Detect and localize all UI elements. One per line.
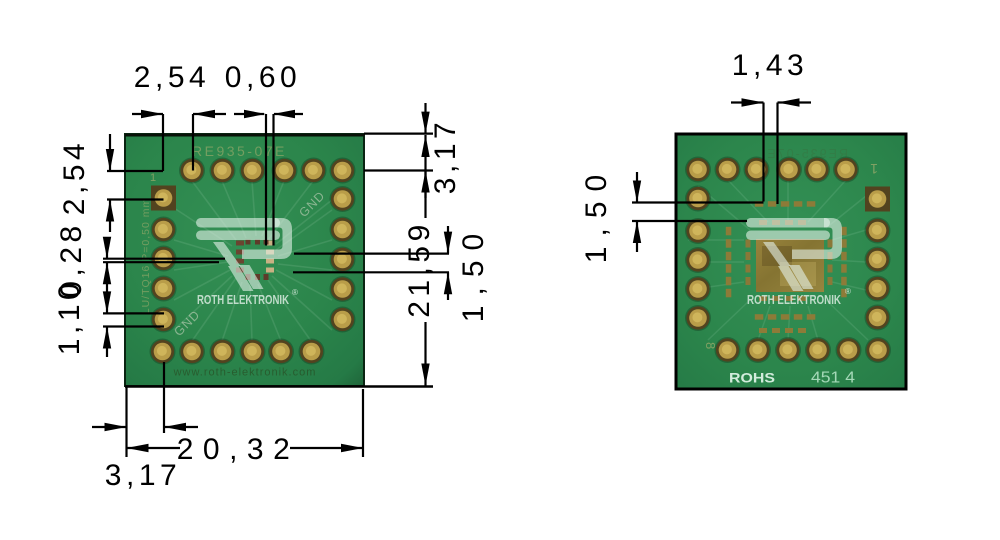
copper traces (left board): [174, 181, 342, 341]
svg-text:3,17: 3,17: [429, 118, 462, 194]
svg-text:1,10: 1,10: [53, 279, 86, 355]
svg-text:0,60: 0,60: [225, 61, 301, 94]
SMD footprint pads (left board center): [236, 240, 274, 281]
svg-text:LU/TQ16 P=0,50 mm: LU/TQ16 P=0,50 mm: [140, 198, 152, 315]
PCB board back (right): [676, 134, 906, 389]
silkscreen label RE935-07E: [192, 143, 287, 159]
silkscreen ROHS (right board): [729, 370, 775, 386]
through-hole pad column right (left board): [330, 186, 356, 333]
dim 2,54 top: arrows and extension lines: [132, 110, 226, 171]
through-hole pad row top (left board): [179, 158, 356, 184]
svg-text:1,50: 1,50: [580, 165, 613, 263]
through-hole pad row top (right board): [685, 157, 859, 183]
dim 20,32: line and arrows: [127, 444, 364, 452]
dim text 2,54 (left, rotated): [58, 139, 91, 215]
svg-text:ROTH ELEKTRONIK: ROTH ELEKTRONIK: [747, 292, 841, 307]
dim 1,43: arrows and lines: [731, 98, 811, 204]
dim text 21,59 (rotated): [403, 220, 436, 318]
GND label bottom-left (left board): [171, 307, 203, 339]
square pin-1 pad (left board): [151, 186, 176, 211]
dim text 1,10 (left, rotated): [53, 279, 86, 355]
dim text 0,28 (left, rotated): [55, 221, 88, 297]
GND label top-right (left board): [296, 188, 328, 220]
PCB board front (left): [125, 134, 364, 386]
dim 1,50 left of right board: lines and arrows: [632, 172, 764, 252]
svg-text:®: ®: [845, 287, 851, 296]
square pin-1 pad (right board): [865, 187, 890, 212]
faint mirrored silkscreen label (right board top): [765, 147, 848, 161]
svg-text:8: 8: [703, 342, 718, 349]
pin 8 marker (right board): [703, 342, 718, 349]
SMD footprint perimeter pads (right board): [726, 201, 847, 333]
dim 0,28 left: lines and arrows: [103, 237, 225, 285]
svg-text:451 4: 451 4: [811, 370, 855, 387]
watermark logo (right board): [746, 218, 842, 291]
through-hole pad row bottom (left board): [150, 339, 325, 365]
svg-text:2,54: 2,54: [58, 139, 91, 215]
dim 1,10 left: lines and arrows: [103, 284, 164, 357]
pin 1 marker (left board): [150, 172, 156, 184]
dim text 1,50 (left of right board, rotated): [580, 165, 613, 263]
dim 3,17 bottom: arrows: [92, 423, 198, 431]
svg-text:www.roth-elektronik.com: www.roth-elektronik.com: [173, 367, 317, 379]
dim text 1,43 (right board top): [732, 49, 808, 82]
date code 4514 (right board): [811, 370, 855, 387]
svg-text:21,59: 21,59: [403, 220, 436, 318]
dim text 0,60 (top): [225, 61, 301, 94]
svg-text:ROTH ELEKTRONIK: ROTH ELEKTRONIK: [197, 292, 289, 307]
dim 1,50 right: lines and arrows: [293, 226, 452, 300]
dim text 2,54 (top): [134, 61, 210, 94]
watermark logo (left board): [196, 218, 292, 291]
dim 0,60 top: arrows and extension lines: [234, 110, 303, 246]
dim 3,17 right: arrows: [421, 103, 429, 198]
through-hole pad row bottom (right board): [715, 337, 892, 363]
pin 1 marker (right board): [870, 161, 878, 177]
silkscreen vertical label P=0,50 mm: [140, 198, 152, 315]
watermark text ROTH ELEKTRONIK (right board): [747, 287, 851, 307]
svg-text:ROHS: ROHS: [729, 370, 775, 386]
SMD footprint center pad (right board): [756, 239, 824, 292]
svg-text:2,54: 2,54: [134, 61, 210, 94]
svg-text:3,17: 3,17: [105, 459, 181, 492]
through-hole pad column right (right board): [865, 218, 891, 331]
dim 2,54 left: extension lines and arrows: [106, 134, 164, 232]
copper traces (right board): [688, 180, 868, 340]
svg-text:1,50: 1,50: [457, 224, 490, 322]
dim text 3,17 (bottom): [105, 459, 181, 492]
dim text 3,17 (right, rotated): [429, 118, 462, 194]
svg-text:1,43: 1,43: [732, 49, 808, 82]
dim text 1,50 (right of left board, rotated): [457, 224, 490, 322]
svg-text:®: ®: [292, 288, 298, 297]
through-hole pad column left (right board): [685, 186, 711, 332]
through-hole pad column left (left board): [151, 217, 177, 333]
dim text 20,32: [177, 433, 300, 466]
svg-text:20,32: 20,32: [177, 433, 300, 466]
watermark text ROTH ELEKTRONIK (left board): [197, 288, 298, 307]
url text bottom (left board): [173, 367, 317, 379]
dim 21,59: line and arrows: [421, 135, 429, 386]
svg-text:1: 1: [870, 161, 878, 177]
bottom extension lines (left board): [125, 362, 433, 457]
dim 3,17 right: extension lines: [364, 134, 433, 171]
svg-text:1: 1: [150, 172, 156, 184]
